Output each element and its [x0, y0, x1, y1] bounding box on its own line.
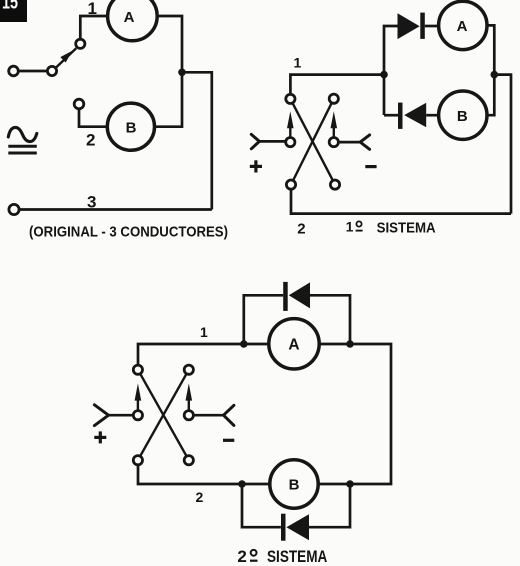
minus sign [223, 439, 234, 442]
reversing switch crossed links [138, 370, 189, 461]
svg-text:1: 1 [88, 0, 97, 18]
switch contact bottom-right [184, 456, 193, 465]
switch S1 throw contact position 1 [76, 39, 85, 48]
switch contact mid-right [329, 138, 338, 147]
svg-text:A: A [124, 9, 135, 26]
switch arrow right [331, 111, 338, 137]
wire [425, 25, 439, 28]
switch contact top-right [184, 365, 193, 374]
svg-text:A: A [457, 18, 468, 35]
wire [138, 465, 270, 484]
svg-text:3: 3 [87, 193, 96, 212]
junction node [178, 69, 186, 77]
svg-text:15: 15 [2, 0, 18, 14]
switch contact mid-left [133, 411, 142, 420]
dc input fork positive [251, 134, 285, 148]
ammeter A [108, 0, 158, 41]
wire [487, 25, 494, 115]
switch contact top-left [133, 365, 142, 374]
wire [182, 72, 212, 209]
switch contact bottom-left [286, 180, 295, 189]
svg-text:2: 2 [86, 131, 95, 150]
svg-text:SISTEMA: SISTEMA [267, 548, 327, 566]
wire [291, 189, 511, 213]
ac source symbol [8, 127, 37, 153]
terminal conductor 3 [9, 204, 19, 214]
terminal switch throw position 2 [74, 99, 84, 109]
dc input fork positive [94, 405, 133, 426]
junction node [346, 340, 354, 348]
junction node [380, 71, 388, 79]
ammeter A [439, 1, 487, 49]
ammeter B [270, 460, 318, 508]
junction node [240, 340, 248, 348]
wire [426, 114, 439, 117]
wire [19, 70, 48, 73]
wire [155, 16, 183, 127]
switch contact mid-right [184, 411, 193, 420]
ammeter B [107, 103, 154, 150]
wire [290, 75, 384, 95]
wire diode loop bottom right [309, 484, 350, 527]
svg-text:B: B [289, 477, 300, 494]
switch contact mid-left [286, 138, 295, 147]
switch S1 common pole contact [47, 66, 56, 75]
caption 1st sistema [346, 219, 436, 237]
plus sign [250, 160, 262, 172]
page number box 15 [0, 0, 27, 22]
svg-text:2: 2 [196, 489, 204, 505]
wire [318, 344, 391, 484]
switch arrow left [287, 111, 294, 137]
ammeter B [439, 91, 487, 139]
ammeter A [269, 319, 319, 369]
diode D1 [398, 13, 425, 39]
svg-text:(ORIGINAL - 3 CONDUCTORES): (ORIGINAL - 3 CONDUCTORES) [29, 224, 228, 241]
dc input fork negative [338, 135, 369, 149]
junction node [346, 480, 354, 488]
junction node [491, 71, 499, 79]
svg-text:1: 1 [200, 324, 208, 340]
wire [494, 75, 511, 214]
diode D2 [398, 103, 426, 129]
switch arrow right [186, 383, 193, 410]
plus sign [94, 431, 106, 443]
wire [80, 16, 107, 39]
wire [384, 114, 398, 117]
wire diode loop top [244, 295, 283, 344]
svg-text:A: A [288, 336, 299, 353]
minus sign [365, 165, 376, 168]
switch contact bottom-right [330, 180, 339, 189]
svg-text:1: 1 [346, 219, 354, 235]
switch contact top-left [286, 94, 295, 103]
junction node [238, 480, 246, 488]
wire diode loop top right [310, 295, 350, 344]
switch contact bottom-left [133, 456, 142, 465]
wire [138, 344, 269, 365]
reversing switch crossed links [290, 99, 335, 185]
wire [384, 26, 398, 115]
wire diode loop bottom [242, 484, 281, 527]
terminal conductor 1 [9, 66, 19, 76]
switch contact top-right [329, 94, 338, 103]
svg-text:1: 1 [294, 54, 302, 70]
wire [79, 109, 107, 127]
diode D4 [281, 514, 309, 541]
svg-text:2: 2 [297, 220, 305, 237]
diode D3 [283, 282, 310, 311]
switch arrow left [135, 383, 142, 410]
svg-text:SISTEMA: SISTEMA [377, 221, 436, 237]
switch S1 lever with arrow [56, 48, 76, 68]
wire [19, 208, 212, 211]
dc input fork negative [193, 405, 234, 425]
svg-text:B: B [457, 108, 468, 125]
svg-text:B: B [126, 120, 137, 137]
caption 2nd sistema [237, 547, 327, 566]
svg-text:2: 2 [237, 547, 246, 566]
